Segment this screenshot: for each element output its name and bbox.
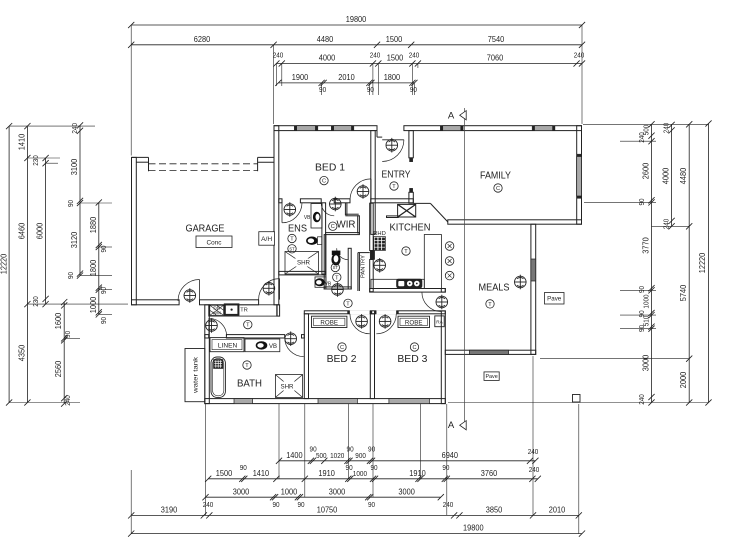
wall garage door jamb east bbox=[257, 157, 259, 171]
wall kitchen-family diagonal bbox=[430, 203, 447, 222]
svg-text:C: C bbox=[340, 345, 344, 351]
wall robes north bbox=[304, 311, 445, 314]
svg-text:90: 90 bbox=[66, 200, 75, 207]
symbol C wir bbox=[329, 222, 337, 230]
wall hall north / kitchen south bbox=[370, 289, 446, 293]
laundry bench bbox=[209, 305, 278, 316]
dim line left col5 bbox=[63, 302, 65, 404]
door arc garage rear bbox=[178, 280, 200, 302]
svg-text:4480: 4480 bbox=[317, 35, 334, 44]
symbol C family bbox=[494, 184, 502, 192]
robe bed2 box bbox=[312, 316, 347, 327]
extension r3a bbox=[275, 64, 277, 87]
door arc meals-hall bbox=[422, 292, 442, 312]
door arc wc bbox=[337, 248, 349, 259]
window jamb mark bbox=[331, 126, 333, 130]
svg-text:3770: 3770 bbox=[642, 237, 651, 254]
wall garage north-west outer bbox=[132, 156, 149, 158]
svg-text:ROBE: ROBE bbox=[405, 320, 423, 327]
wall bed2-bed3 bbox=[370, 314, 374, 399]
svg-text:VB: VB bbox=[304, 215, 311, 221]
door arc bed2 bbox=[350, 314, 370, 334]
robe door jamb mark bbox=[348, 311, 350, 314]
svg-text:1500: 1500 bbox=[216, 469, 233, 478]
svg-text:90: 90 bbox=[99, 317, 108, 324]
wall meals east bbox=[531, 224, 536, 354]
dim line top 19800 bbox=[131, 24, 582, 26]
svg-text:2010: 2010 bbox=[338, 73, 355, 82]
svg-text:A: A bbox=[448, 111, 455, 122]
svg-text:SHR: SHR bbox=[297, 260, 311, 267]
bath basin bbox=[256, 341, 268, 349]
svg-text:WIR: WIR bbox=[337, 219, 356, 231]
wall wir notch h1 bbox=[345, 213, 358, 215]
ens toilet bbox=[306, 237, 318, 245]
svg-text:90: 90 bbox=[99, 287, 108, 294]
wall family south bbox=[448, 220, 582, 224]
door arc ens bbox=[282, 203, 302, 223]
ext left y314 bbox=[99, 313, 112, 315]
dim line bottom row3 bbox=[206, 496, 441, 498]
ens cistern bbox=[318, 237, 322, 245]
wall garage door jamb west bbox=[148, 157, 150, 171]
ext right y290 bbox=[620, 289, 656, 291]
wall bed1 south seg a bbox=[279, 199, 282, 203]
wall wc south bbox=[324, 287, 351, 289]
svg-text:BED 3: BED 3 bbox=[397, 353, 427, 365]
svg-text:230: 230 bbox=[31, 155, 40, 166]
svg-text:12220: 12220 bbox=[0, 253, 9, 274]
wall wir notch v2 bbox=[346, 203, 348, 216]
window jamb mark bbox=[440, 126, 442, 130]
door leaf garage east bbox=[279, 279, 281, 300]
washer dryer DR WM bbox=[210, 305, 224, 315]
wall garage south b bbox=[200, 300, 259, 305]
svg-text:19800: 19800 bbox=[463, 524, 484, 533]
svg-text:Pave: Pave bbox=[485, 374, 497, 380]
svg-text:T: T bbox=[404, 249, 408, 255]
ens vanity counter bbox=[311, 204, 322, 228]
svg-text:GARAGE: GARAGE bbox=[186, 223, 225, 235]
extension line left corner bbox=[130, 25, 132, 156]
wall kitchen west upper bbox=[370, 203, 374, 250]
door arc wir bbox=[321, 203, 334, 216]
kitchen bench east bbox=[424, 235, 441, 289]
svg-text:90: 90 bbox=[240, 463, 247, 472]
svg-text:MEALS: MEALS bbox=[479, 282, 510, 294]
robe bed3 box bbox=[398, 316, 430, 327]
ext right y315 bbox=[620, 314, 656, 316]
svg-text:LINEN: LINEN bbox=[218, 342, 238, 349]
light symbol kitchen bbox=[374, 258, 386, 273]
dim line right col1 bbox=[651, 124, 653, 402]
svg-text:4000: 4000 bbox=[319, 54, 336, 63]
svg-text:Pave: Pave bbox=[547, 296, 562, 303]
svg-text:230: 230 bbox=[31, 296, 40, 307]
ext right y226 bbox=[652, 225, 690, 227]
svg-text:2560: 2560 bbox=[54, 360, 63, 377]
svg-text:90: 90 bbox=[297, 500, 304, 509]
svg-text:1410: 1410 bbox=[253, 469, 270, 478]
light symbol entry bbox=[386, 138, 398, 153]
conc box bbox=[196, 236, 232, 248]
hall basin bbox=[315, 278, 325, 286]
door leaf entry bbox=[382, 139, 404, 141]
ext left y402 bbox=[9, 402, 80, 404]
robe bed3 inner bbox=[400, 318, 428, 325]
svg-text:3000: 3000 bbox=[233, 487, 250, 496]
window jamb mark bbox=[532, 126, 534, 130]
svg-text:T: T bbox=[245, 363, 249, 369]
light symbol garage east door bbox=[263, 281, 275, 296]
symbol T wc bbox=[333, 273, 341, 281]
svg-text:90: 90 bbox=[346, 463, 353, 472]
wall pantry west b bbox=[358, 253, 360, 291]
svg-text:6000: 6000 bbox=[36, 222, 45, 239]
door arc bed3 bbox=[376, 314, 396, 334]
svg-text:BATH: BATH bbox=[237, 378, 262, 390]
ext left y338 bbox=[64, 337, 80, 339]
linen cupboard box bbox=[210, 338, 244, 352]
wall bed1 south seg c bbox=[334, 199, 350, 203]
symbol T hall bbox=[344, 299, 352, 307]
opening bed2 door bbox=[350, 310, 370, 314]
entry jamb mark a bbox=[410, 158, 413, 162]
window jamb mark bbox=[316, 126, 318, 130]
window jamb mark bbox=[352, 126, 354, 130]
window jamb family a bbox=[577, 154, 581, 157]
svg-text:WM: WM bbox=[213, 311, 221, 316]
symbol T ens bbox=[288, 234, 296, 242]
range hood RHD hatch bbox=[374, 237, 386, 251]
extension r4b bbox=[368, 83, 370, 95]
ext bot x420 bbox=[420, 404, 422, 479]
ext left y158 bbox=[27, 157, 60, 159]
svg-text:90: 90 bbox=[368, 500, 375, 509]
ext bot x205 bbox=[205, 404, 207, 515]
wall fridge nook bbox=[387, 216, 399, 218]
extension r3d bbox=[377, 64, 379, 96]
door leaf bed1 bbox=[370, 179, 372, 200]
wall entry south bbox=[371, 199, 414, 203]
extension r4a bbox=[321, 83, 323, 95]
symbol C bed2 bbox=[338, 343, 346, 351]
window family east bbox=[577, 157, 582, 197]
ext right y141 bbox=[620, 140, 656, 142]
window jamb mark bbox=[294, 126, 296, 130]
svg-text:240: 240 bbox=[70, 123, 79, 134]
dim line left col4 bbox=[79, 125, 81, 275]
wall porch jog h bbox=[377, 136, 382, 138]
garage door dashed inner bbox=[149, 170, 258, 172]
ext right bottom y402 bbox=[448, 402, 709, 404]
svg-text:3190: 3190 bbox=[161, 506, 178, 515]
bath tub bbox=[211, 357, 225, 397]
ext right y124 bbox=[583, 123, 709, 125]
light symbol wc bbox=[332, 282, 344, 297]
pave box 1 bbox=[545, 293, 565, 305]
ext bot x348 bbox=[347, 404, 349, 479]
RA box bbox=[435, 316, 444, 327]
symbol ST ens bbox=[288, 245, 296, 253]
light symbol laundry hall bbox=[206, 318, 218, 333]
light symbol bed3 door bbox=[379, 314, 391, 329]
wall entry east upper bbox=[409, 131, 413, 158]
svg-text:6280: 6280 bbox=[194, 35, 211, 44]
cooktop bbox=[397, 279, 423, 288]
dim line bottom row2 bbox=[208, 478, 538, 480]
sliding door meals east bbox=[531, 259, 536, 281]
ext left y126 bbox=[9, 125, 95, 127]
wall porch jog v bbox=[376, 126, 378, 137]
robe door jamb mark bbox=[370, 311, 372, 314]
ext left y289 bbox=[99, 289, 112, 291]
bath tub inner bbox=[213, 359, 224, 396]
dim line top row3 bbox=[276, 63, 582, 65]
opening bed3 door bbox=[376, 310, 396, 314]
svg-text:2000: 2000 bbox=[679, 371, 688, 388]
ext bot x373 bbox=[372, 404, 374, 497]
extension r3f bbox=[417, 64, 419, 69]
svg-text:2600: 2600 bbox=[642, 162, 651, 179]
svg-text:RHD: RHD bbox=[373, 231, 386, 237]
light symbol meals door bbox=[436, 295, 448, 310]
window bed3 bbox=[389, 399, 430, 404]
ext right y328 bbox=[620, 328, 656, 330]
dim line right col4 bbox=[708, 124, 710, 403]
wall front east segment bbox=[404, 126, 582, 131]
ext bot x279 bbox=[278, 404, 280, 479]
wall meals south bbox=[445, 350, 535, 354]
wall pantry west a bbox=[357, 253, 359, 291]
symbol C bed1 bbox=[320, 176, 328, 184]
svg-text:240: 240 bbox=[637, 394, 646, 405]
symbol C bed3 bbox=[410, 343, 418, 351]
svg-text:240: 240 bbox=[574, 51, 585, 60]
section line A-A bbox=[464, 108, 466, 425]
svg-text:VB: VB bbox=[269, 344, 277, 350]
wall laundry east bbox=[277, 305, 280, 316]
svg-text:1000: 1000 bbox=[89, 296, 98, 313]
section marker top bbox=[460, 111, 467, 120]
svg-text:3000: 3000 bbox=[329, 487, 346, 496]
window family b bbox=[535, 126, 553, 131]
svg-text:1400: 1400 bbox=[286, 451, 303, 460]
extension r3e bbox=[411, 64, 413, 96]
ext bot x131 bbox=[130, 470, 132, 534]
sliding door meals south bbox=[469, 350, 508, 354]
pier square bbox=[573, 395, 581, 403]
door arc garage east bbox=[259, 279, 280, 300]
wall entry east lower bbox=[409, 192, 413, 203]
extension r3c bbox=[372, 64, 374, 96]
breakfast stools bbox=[445, 242, 454, 251]
svg-text:C: C bbox=[322, 179, 326, 185]
extension line house east bbox=[581, 25, 583, 124]
svg-text:240: 240 bbox=[273, 51, 284, 60]
svg-text:900: 900 bbox=[355, 451, 366, 460]
wall bath north a bbox=[205, 335, 209, 338]
wall garage south a bbox=[132, 300, 180, 305]
wall bed3 east bbox=[441, 311, 445, 404]
svg-text:90: 90 bbox=[99, 245, 108, 252]
svg-text:240: 240 bbox=[203, 500, 214, 509]
robe door jamb mark bbox=[396, 311, 398, 314]
svg-text:90: 90 bbox=[410, 85, 417, 94]
svg-text:500: 500 bbox=[316, 451, 327, 460]
svg-text:240: 240 bbox=[370, 51, 381, 60]
svg-text:1410: 1410 bbox=[18, 133, 27, 150]
dim line right col3 bbox=[688, 124, 690, 402]
svg-text:A: A bbox=[448, 420, 455, 431]
svg-text:1800: 1800 bbox=[89, 259, 98, 276]
svg-text:3850: 3850 bbox=[486, 506, 503, 515]
wall bed2 west bbox=[304, 314, 308, 399]
ext left y275 bbox=[80, 275, 112, 277]
window jamb mark bbox=[461, 126, 463, 130]
svg-text:7540: 7540 bbox=[488, 35, 505, 44]
light symbol bath door bbox=[285, 331, 297, 346]
window bed2 bbox=[318, 399, 357, 404]
door leaf garage rear bbox=[199, 280, 201, 302]
dim line right col2 bbox=[671, 125, 673, 226]
skylight/flue X-box kitchen bbox=[398, 204, 416, 217]
svg-text:ENS: ENS bbox=[288, 223, 307, 235]
ext left y163 bbox=[46, 162, 58, 164]
dim line bottom row1 bbox=[279, 460, 535, 462]
water tank bbox=[185, 349, 205, 402]
svg-text:90: 90 bbox=[637, 286, 646, 293]
svg-text:240: 240 bbox=[443, 500, 454, 509]
wall wc west bbox=[324, 235, 326, 289]
svg-text:1910: 1910 bbox=[409, 469, 426, 478]
wall ens south bbox=[279, 271, 326, 275]
svg-text:19800: 19800 bbox=[346, 15, 367, 24]
svg-text:C: C bbox=[412, 345, 416, 351]
svg-text:RA: RA bbox=[436, 320, 443, 325]
door arc entry bbox=[382, 140, 404, 162]
ext right y202 bbox=[584, 201, 656, 203]
symbol T meals bbox=[486, 300, 494, 308]
dim line top row2 bbox=[131, 44, 582, 46]
wall wir notch h2 bbox=[345, 215, 358, 217]
wall garage north-east outer bbox=[258, 156, 274, 158]
svg-text:Conc: Conc bbox=[207, 239, 223, 246]
ext left y304 bbox=[27, 303, 128, 305]
dim line bottom row5 bbox=[131, 533, 582, 535]
svg-text:KITCHEN: KITCHEN bbox=[390, 222, 431, 234]
section marker bottom bbox=[460, 421, 467, 430]
svg-text:A/H: A/H bbox=[261, 236, 272, 243]
dim line top row4 bbox=[278, 82, 414, 84]
svg-text:7060: 7060 bbox=[487, 54, 504, 63]
dim line left col3 bbox=[45, 158, 47, 304]
light symbol garage rear door bbox=[184, 288, 196, 303]
ens shower bbox=[285, 252, 319, 275]
svg-text:3760: 3760 bbox=[481, 469, 498, 478]
wall pantry north bbox=[358, 252, 370, 254]
svg-text:90: 90 bbox=[637, 198, 646, 205]
bath tub taps bbox=[214, 360, 223, 369]
wall family east bbox=[577, 126, 582, 225]
svg-text:90: 90 bbox=[66, 272, 75, 279]
svg-text:1600: 1600 bbox=[54, 312, 63, 329]
hall basin counter bbox=[315, 277, 326, 287]
svg-text:1900: 1900 bbox=[292, 73, 309, 82]
wall bed1 east / entry west bbox=[371, 131, 375, 235]
entry jamb mark b bbox=[410, 188, 413, 192]
svg-text:T: T bbox=[488, 302, 492, 308]
wall meals west pier bbox=[441, 289, 445, 293]
wall garage north-west inner bbox=[136, 161, 148, 163]
symbol T bath bbox=[243, 361, 251, 369]
dim line bottom row4 bbox=[131, 514, 579, 516]
svg-text:1800: 1800 bbox=[384, 73, 401, 82]
svg-text:10750: 10750 bbox=[317, 506, 338, 515]
svg-text:T: T bbox=[346, 301, 350, 307]
svg-text:12220: 12220 bbox=[698, 252, 707, 273]
light symbol ens bbox=[284, 202, 296, 217]
wall ens east bbox=[322, 203, 326, 274]
ext right y358 bbox=[540, 358, 689, 360]
window bath bbox=[234, 399, 253, 404]
wall wir notch v1 bbox=[344, 203, 346, 216]
dim line left col2 bbox=[26, 126, 28, 402]
door leaf laundry bbox=[208, 318, 210, 336]
extension r3b bbox=[281, 64, 283, 87]
svg-text:90: 90 bbox=[347, 445, 354, 454]
svg-text:6940: 6940 bbox=[442, 451, 459, 460]
svg-text:90: 90 bbox=[319, 85, 326, 94]
robe door jamb mark bbox=[374, 311, 376, 314]
window bed1 a bbox=[297, 126, 316, 131]
svg-text:water tank: water tank bbox=[194, 356, 200, 395]
ext bot x533 bbox=[532, 356, 534, 515]
svg-text:2010: 2010 bbox=[549, 506, 566, 515]
svg-text:T: T bbox=[246, 323, 250, 329]
wall bath north c bbox=[302, 335, 305, 338]
light symbol meals bbox=[515, 275, 527, 290]
ens basin bbox=[313, 212, 321, 223]
symbol ST wc bbox=[331, 263, 339, 271]
svg-text:240: 240 bbox=[529, 465, 540, 474]
svg-text:90: 90 bbox=[63, 331, 72, 338]
wc toilet bbox=[332, 251, 341, 256]
door arc bed1 bbox=[350, 179, 371, 200]
svg-text:1500: 1500 bbox=[387, 54, 404, 63]
ext left y247 bbox=[99, 246, 112, 248]
svg-text:3100: 3100 bbox=[70, 158, 79, 175]
svg-text:BED 2: BED 2 bbox=[327, 353, 357, 365]
kitchen bench south bbox=[371, 279, 424, 288]
svg-text:T: T bbox=[335, 275, 339, 281]
svg-text:4480: 4480 bbox=[679, 167, 688, 184]
svg-text:ROBE: ROBE bbox=[320, 320, 338, 327]
svg-text:5740: 5740 bbox=[679, 284, 688, 301]
svg-text:PANTRY: PANTRY bbox=[361, 255, 367, 278]
ext bot x304 bbox=[304, 404, 306, 497]
door arc bath bbox=[285, 338, 304, 357]
pantry door jamb mark bbox=[370, 251, 374, 260]
light symbol wir door bbox=[330, 197, 342, 212]
svg-text:BED 1: BED 1 bbox=[315, 162, 345, 174]
symbol T laundry hall bbox=[244, 320, 252, 328]
light symbol bed2 door bbox=[356, 314, 368, 329]
svg-text:510: 510 bbox=[642, 316, 651, 327]
svg-text:1020: 1020 bbox=[330, 451, 344, 460]
robe bed2 inner bbox=[314, 318, 345, 325]
svg-text:3000: 3000 bbox=[642, 354, 651, 371]
